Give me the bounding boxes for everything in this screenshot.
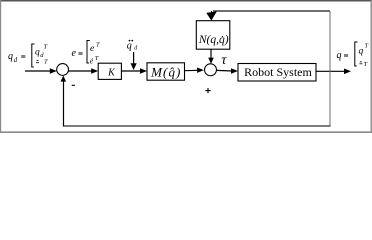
svg-text:Robot System: Robot System	[244, 65, 312, 79]
svg-text:N(q,q̇): N(q,q̇)	[198, 34, 229, 46]
svg-text:τ: τ	[221, 53, 227, 68]
svg-text:q: q	[359, 47, 364, 57]
svg-text:≡: ≡	[78, 48, 83, 58]
svg-text:T: T	[95, 55, 99, 62]
svg-text:M(q̂): M(q̂)	[150, 64, 181, 79]
svg-text:T: T	[96, 42, 100, 49]
svg-text:T: T	[364, 61, 368, 68]
svg-text:T: T	[365, 43, 369, 50]
svg-text:d: d	[134, 45, 138, 51]
svg-text:d: d	[14, 56, 18, 64]
svg-text:≡: ≡	[344, 50, 349, 60]
svg-text:q: q	[35, 48, 40, 58]
svg-text:q: q	[337, 50, 342, 61]
svg-text:T: T	[44, 44, 48, 51]
svg-text:q: q	[127, 40, 132, 51]
svg-text:q: q	[8, 51, 13, 62]
svg-text:K: K	[107, 68, 116, 79]
svg-text:T: T	[44, 59, 48, 66]
svg-text:≡: ≡	[21, 52, 26, 62]
svg-text:e: e	[72, 48, 77, 59]
svg-text:e: e	[90, 44, 94, 54]
svg-text:ė: ė	[90, 57, 94, 66]
